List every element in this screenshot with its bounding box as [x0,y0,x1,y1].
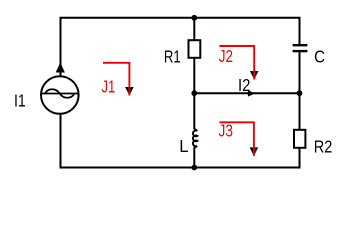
svg-text:I2: I2 [238,75,250,95]
svg-text:J1: J1 [102,77,116,97]
svg-text:R2: R2 [314,136,333,156]
svg-text:R1: R1 [164,47,181,67]
svg-text:J2: J2 [219,46,233,66]
svg-text:I1: I1 [14,90,26,110]
svg-text:C: C [314,47,325,67]
svg-text:L: L [179,136,189,156]
svg-text:J3: J3 [219,121,233,141]
